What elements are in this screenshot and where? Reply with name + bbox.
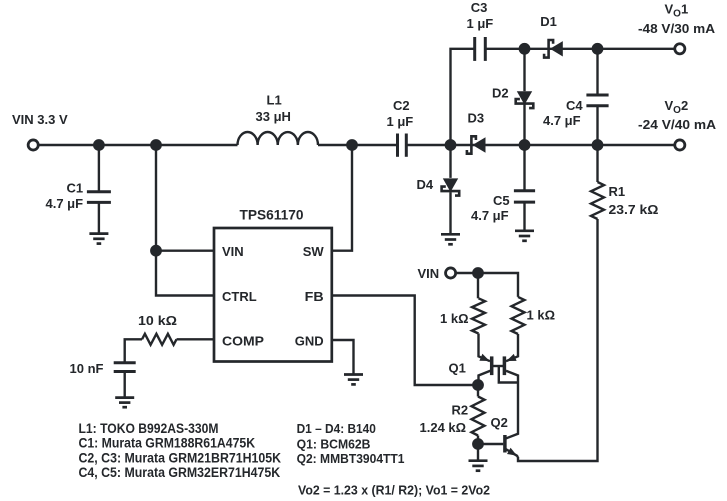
resistor R1 xyxy=(591,182,604,219)
node input rail VIN-IC junction xyxy=(150,139,162,151)
svg-text:R2: R2 xyxy=(452,403,469,418)
terminal VIN bias xyxy=(446,268,456,278)
svg-text:L1: TOKO B992AS-330M: L1: TOKO B992AS-330M xyxy=(79,421,219,436)
wire C1 to ground xyxy=(98,203,100,233)
wire C4 branch between rails xyxy=(596,49,598,94)
wire Q1 right collector down to Q2 collector xyxy=(505,371,518,439)
svg-text:R1: R1 xyxy=(609,184,626,199)
wire Q1 left collector down to FB node xyxy=(479,371,491,385)
svg-text:D3: D3 xyxy=(468,111,485,126)
svg-text:VIN: VIN xyxy=(222,244,244,259)
svg-text:C1: Murata GRM188R61A475K: C1: Murata GRM188R61A475K xyxy=(79,436,256,451)
ground below C1 xyxy=(89,234,108,244)
svg-text:VIN: VIN xyxy=(418,266,440,281)
wire VIN node down to left 1k resistor xyxy=(477,273,479,298)
resistor 1k right xyxy=(512,297,525,334)
wire Q1 base interconnect xyxy=(492,365,505,367)
wire right 1k resistor to Q1 right emitter xyxy=(506,334,518,361)
ground below GND pin xyxy=(344,375,363,385)
terminal VIN input xyxy=(28,140,38,150)
wire Q2 base xyxy=(478,443,503,445)
capacitor C5 xyxy=(514,191,535,202)
inductor L1 xyxy=(238,132,318,145)
wire Q2 emitter corner xyxy=(505,449,518,457)
node top rail C3-D1-D2 junction xyxy=(519,43,531,55)
transistor Q1 left base bar xyxy=(490,356,494,375)
svg-text:1 μF: 1 μF xyxy=(387,114,414,129)
wire GND pin to ground xyxy=(332,340,354,374)
op-amp U1 TPS61170 box xyxy=(214,228,332,362)
svg-text:C2, C3: Murata GRM21BR71H105K: C2, C3: Murata GRM21BR71H105K xyxy=(79,450,282,465)
wire VO2 rail down to R1 xyxy=(596,145,598,182)
capacitor 10nF xyxy=(114,363,136,372)
wire Q1 base to right collector xyxy=(499,366,518,383)
svg-text:1 kΩ: 1 kΩ xyxy=(440,311,469,326)
wire D4 branch below VO2 rail xyxy=(449,145,451,178)
svg-text:C5: C5 xyxy=(493,193,510,208)
svg-text:Vo2 = 1.23 x (R1/ R2); Vo1 = 2: Vo2 = 1.23 x (R1/ R2); Vo1 = 2Vo2 xyxy=(298,483,490,498)
wire C4 lower lead xyxy=(596,107,598,145)
wire FB pin over and down to Q1 node xyxy=(332,296,478,386)
svg-text:C4: C4 xyxy=(566,98,583,113)
diode D3 xyxy=(467,136,486,153)
capacitor C2 xyxy=(398,134,407,157)
svg-text:Q1: BCM62B: Q1: BCM62B xyxy=(297,436,371,451)
node VO2 rail D2-C5 junction xyxy=(519,139,531,151)
svg-text:L1: L1 xyxy=(267,92,282,107)
wire VIN pin xyxy=(156,249,214,251)
ground below D4 xyxy=(441,234,460,244)
capacitor C3 xyxy=(475,37,486,61)
node VIN pin junction xyxy=(150,245,162,257)
wire C5 branch below VO2 rail xyxy=(523,145,525,190)
svg-text:1 kΩ: 1 kΩ xyxy=(527,308,556,323)
wire C2 to D3 node and VO2 rail through to VO2 terminal xyxy=(407,144,674,146)
wire VIN bias node to 1k resistors xyxy=(457,273,518,297)
svg-text:23.7 kΩ: 23.7 kΩ xyxy=(609,202,659,217)
node top rail D1-C4 junction xyxy=(592,43,604,55)
wire D2 branch between rails xyxy=(523,49,525,91)
node VIN bias junction xyxy=(472,267,484,279)
wire C3 branch vertical from VO2 rail up to top rail xyxy=(451,49,474,145)
wire input rail left segment xyxy=(39,144,237,146)
svg-text:-48 V/30 mA: -48 V/30 mA xyxy=(638,21,716,36)
diode D2 xyxy=(516,91,534,108)
diode D1 xyxy=(544,40,563,58)
ground below C5 xyxy=(515,231,534,241)
capacitor C1 xyxy=(87,192,111,203)
svg-text:C3: C3 xyxy=(471,0,488,15)
svg-text:Q2: Q2 xyxy=(491,415,508,430)
ground below R2/Q2 xyxy=(469,461,488,471)
resistor 10k xyxy=(142,334,177,345)
svg-text:-24 V/40 mA: -24 V/40 mA xyxy=(638,117,717,132)
node FB-R2-Q1 junction xyxy=(472,379,484,391)
svg-text:FB: FB xyxy=(305,289,324,304)
svg-text:VIN 3.3 V: VIN 3.3 V xyxy=(12,112,68,127)
svg-text:GND: GND xyxy=(295,334,324,349)
wire R2 bottom to ground node xyxy=(477,436,479,460)
svg-text:4.7 μF: 4.7 μF xyxy=(46,196,84,211)
svg-text:1.24 kΩ: 1.24 kΩ xyxy=(420,420,467,435)
svg-text:4.7 μF: 4.7 μF xyxy=(471,208,509,223)
node input rail SW junction xyxy=(346,139,358,151)
transistor Q1 right emitter arrow xyxy=(506,354,516,361)
resistor R2 xyxy=(472,397,485,436)
svg-text:D1: D1 xyxy=(540,14,557,29)
svg-text:D2: D2 xyxy=(492,86,509,101)
wire left 1k resistor to Q1 left emitter xyxy=(479,334,491,362)
svg-text:10 nF: 10 nF xyxy=(70,361,104,376)
wire D2 cathode down to VO2 rail xyxy=(523,104,525,145)
transistor Q1 right base bar xyxy=(503,356,507,375)
wire input rail right segment to C2 xyxy=(318,144,397,146)
svg-text:TPS61170: TPS61170 xyxy=(240,206,304,222)
terminal VO2 xyxy=(675,140,685,150)
wire SW pin up to input rail xyxy=(332,145,352,251)
wire D4 cathode to ground xyxy=(449,192,451,233)
svg-text:SW: SW xyxy=(303,244,325,259)
svg-text:C2: C2 xyxy=(393,98,410,113)
svg-text:4.7 μF: 4.7 μF xyxy=(543,113,581,128)
wire FB node through R2 xyxy=(477,385,479,397)
wire 10k resistor to 10nF cap xyxy=(125,339,142,362)
wire COMP pin to 10k resistor xyxy=(177,338,215,340)
transistor Q2 base bar xyxy=(503,435,507,453)
node C2-D3-C3 junction xyxy=(445,139,457,151)
node input rail C1 junction xyxy=(93,139,105,151)
svg-text:D4: D4 xyxy=(417,177,434,192)
svg-text:Q2: MMBT3904TT1: Q2: MMBT3904TT1 xyxy=(297,451,405,466)
svg-text:CTRL: CTRL xyxy=(222,289,257,304)
svg-text:33 μH: 33 μH xyxy=(256,109,291,124)
svg-text:Q1: Q1 xyxy=(449,360,466,375)
wire C5 to ground xyxy=(523,203,525,230)
svg-text:C4, C5: Murata GRM32ER71H475K: C4, C5: Murata GRM32ER71H475K xyxy=(79,465,281,480)
terminal VO1 xyxy=(675,44,685,54)
diode D4 xyxy=(442,178,460,195)
svg-text:D1 – D4: B140: D1 – D4: B140 xyxy=(297,421,376,436)
svg-text:C1: C1 xyxy=(67,180,84,195)
ground below 10nF xyxy=(115,398,134,408)
svg-text:COMP: COMP xyxy=(222,334,264,349)
wire 10nF cap to ground xyxy=(123,372,125,397)
svg-text:10 kΩ: 10 kΩ xyxy=(138,313,177,328)
node VO2 rail C4-R1 junction xyxy=(592,139,604,151)
wire VIN/CTRL branch from input rail down to CTRL pin xyxy=(156,145,214,296)
svg-text:1 μF: 1 μF xyxy=(467,16,494,31)
resistor 1k left xyxy=(472,298,485,333)
node R2-Q2 ground junction xyxy=(472,438,484,450)
wire top rail from C3 to VO1 terminal xyxy=(486,48,674,50)
transistor Q2 emitter arrow xyxy=(507,448,517,456)
capacitor C4 xyxy=(586,95,608,106)
wire R1 bottom down and around to Q2 emitter xyxy=(518,219,598,461)
wire C1 branch from input rail xyxy=(98,145,100,191)
transistor Q1 left emitter arrow xyxy=(479,354,489,361)
